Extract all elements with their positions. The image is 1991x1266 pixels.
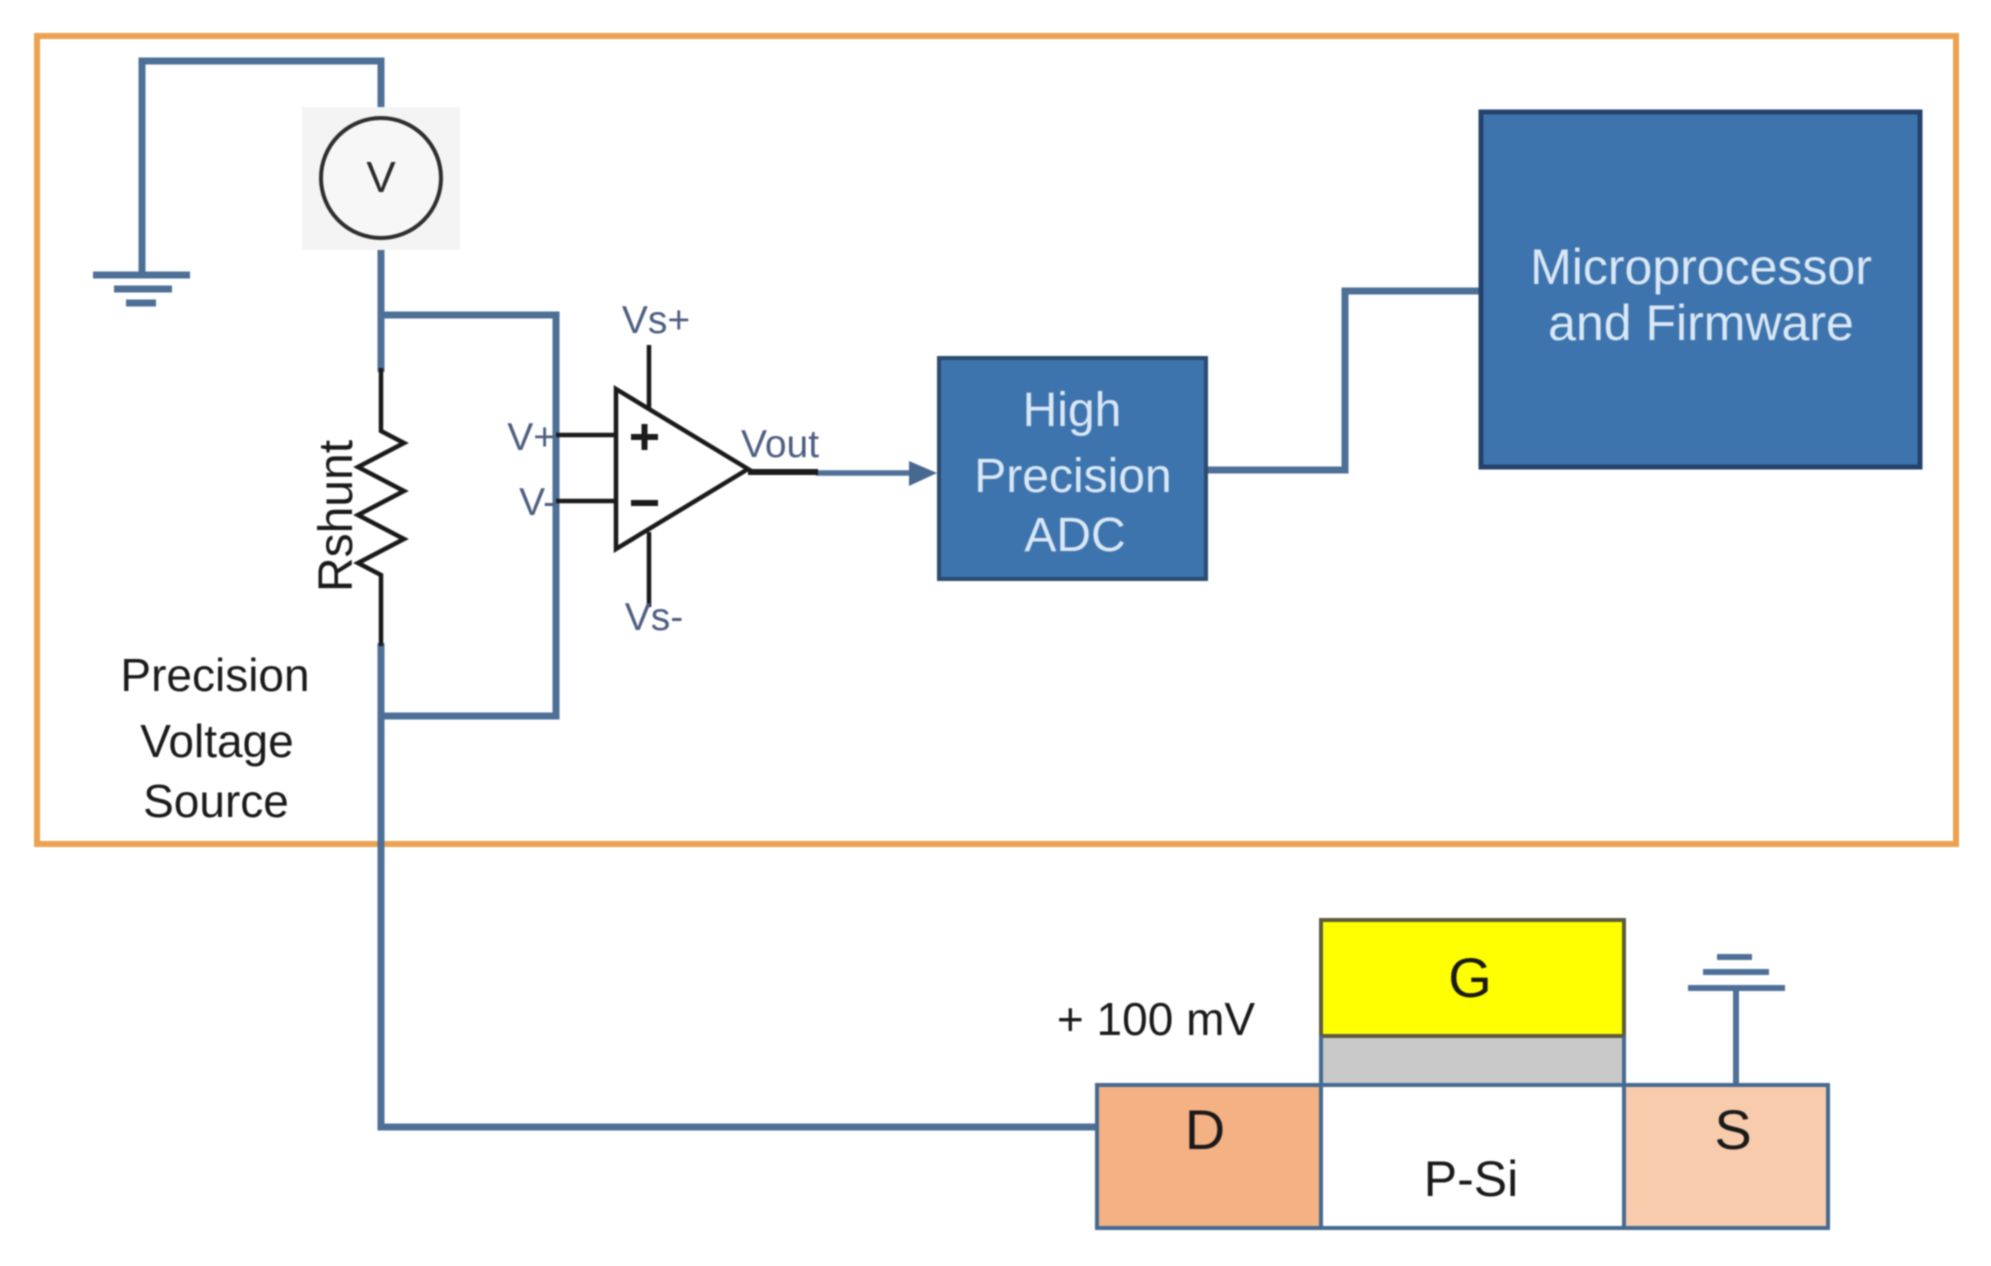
svg-text:+ 100 mV: + 100 mV [1057,993,1255,1045]
svg-text:and Firmware: and Firmware [1548,295,1854,351]
svg-text:Precision: Precision [974,450,1171,503]
svg-text:ADC: ADC [1024,509,1125,562]
svg-text:G: G [1448,946,1492,1009]
svg-text:V-: V- [519,481,556,524]
svg-text:Vs+: Vs+ [622,299,690,342]
svg-text:Rshunt: Rshunt [310,440,363,592]
svg-text:V+: V+ [507,416,556,459]
svg-text:Source: Source [143,775,289,827]
svg-text:V: V [366,153,396,202]
svg-text:D: D [1185,1098,1225,1161]
svg-text:Vs-: Vs- [625,596,684,639]
svg-text:Microprocessor: Microprocessor [1530,239,1872,295]
svg-text:High: High [1023,384,1122,437]
svg-text:Voltage: Voltage [140,715,293,767]
svg-text:P-Si: P-Si [1424,1151,1518,1207]
svg-text:Vout: Vout [741,423,819,466]
svg-text:S: S [1714,1098,1751,1161]
svg-text:Precision: Precision [120,649,309,701]
